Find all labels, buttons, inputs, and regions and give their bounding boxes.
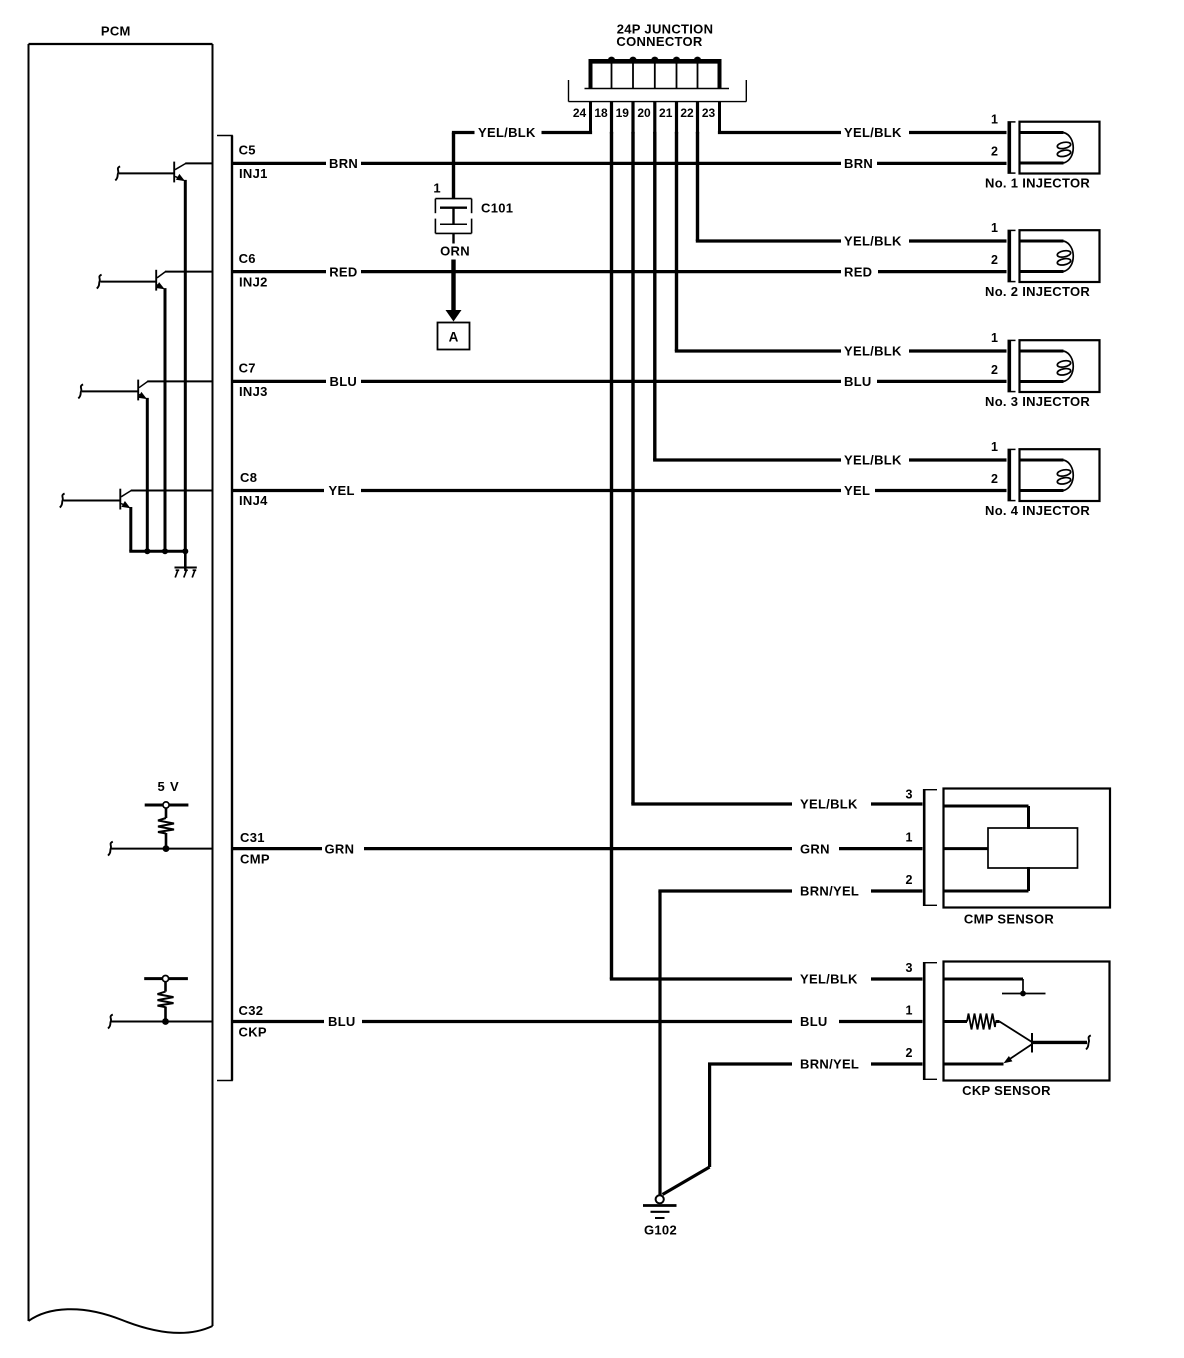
svg-text:3: 3 [906, 961, 913, 975]
svg-text:INJ3: INJ3 [239, 384, 268, 399]
svg-text:RED: RED [844, 264, 872, 279]
svg-text:2: 2 [906, 1046, 913, 1060]
svg-text:C31: C31 [240, 830, 265, 845]
svg-text:No. 4 INJECTOR: No. 4 INJECTOR [985, 503, 1090, 518]
svg-text:1: 1 [991, 221, 998, 235]
svg-text:No. 2 INJECTOR: No. 2 INJECTOR [985, 284, 1090, 299]
svg-text:BLU: BLU [844, 374, 872, 389]
svg-text:YEL/BLK: YEL/BLK [844, 234, 902, 249]
svg-text:C7: C7 [239, 361, 256, 376]
svg-text:BLU: BLU [330, 374, 358, 389]
svg-text:CKP: CKP [239, 1025, 267, 1040]
svg-text:G102: G102 [644, 1223, 677, 1238]
svg-text:BRN: BRN [844, 156, 873, 171]
svg-text:C32: C32 [239, 1003, 264, 1018]
svg-text:20: 20 [637, 106, 651, 120]
svg-text:2: 2 [991, 253, 998, 267]
svg-text:GRN: GRN [325, 841, 355, 856]
svg-text:24: 24 [573, 106, 587, 120]
svg-text:YEL: YEL [329, 483, 355, 498]
svg-text:BLU: BLU [328, 1014, 356, 1029]
svg-text:CONNECTOR: CONNECTOR [616, 34, 703, 49]
svg-text:1: 1 [906, 831, 913, 845]
svg-text:19: 19 [616, 106, 630, 120]
svg-text:YEL/BLK: YEL/BLK [844, 125, 902, 140]
svg-text:22: 22 [680, 106, 694, 120]
svg-text:CKP SENSOR: CKP SENSOR [962, 1083, 1051, 1098]
svg-text:C8: C8 [240, 470, 257, 485]
svg-text:1: 1 [906, 1004, 913, 1018]
svg-text:1: 1 [991, 331, 998, 345]
svg-text:1: 1 [433, 181, 440, 196]
svg-text:2: 2 [991, 145, 998, 159]
svg-text:BRN/YEL: BRN/YEL [800, 884, 859, 899]
svg-text:YEL: YEL [844, 483, 870, 498]
svg-text:CMP SENSOR: CMP SENSOR [964, 912, 1054, 927]
svg-text:INJ4: INJ4 [239, 493, 268, 508]
svg-text:INJ2: INJ2 [239, 274, 268, 289]
svg-text:21: 21 [659, 106, 673, 120]
svg-text:YEL/BLK: YEL/BLK [800, 797, 858, 812]
svg-text:C5: C5 [239, 143, 256, 158]
svg-text:No. 1 INJECTOR: No. 1 INJECTOR [985, 176, 1090, 191]
svg-text:GRN: GRN [800, 841, 830, 856]
svg-text:BRN/YEL: BRN/YEL [800, 1057, 859, 1072]
svg-text:YEL/BLK: YEL/BLK [844, 453, 902, 468]
svg-text:CMP: CMP [240, 852, 270, 867]
svg-text:2: 2 [906, 873, 913, 887]
svg-text:INJ1: INJ1 [239, 166, 268, 181]
svg-text:RED: RED [329, 264, 357, 279]
svg-text:A: A [449, 330, 459, 345]
svg-text:YEL/BLK: YEL/BLK [800, 972, 858, 987]
svg-text:2: 2 [991, 472, 998, 486]
svg-text:3: 3 [906, 788, 913, 802]
svg-text:C6: C6 [239, 251, 256, 266]
svg-text:BLU: BLU [800, 1014, 828, 1029]
svg-text:1: 1 [991, 113, 998, 127]
svg-text:2: 2 [991, 363, 998, 377]
svg-text:18: 18 [594, 106, 608, 120]
svg-text:ORN: ORN [440, 244, 470, 259]
svg-text:BRN: BRN [329, 156, 358, 171]
svg-text:23: 23 [702, 106, 716, 120]
svg-text:PCM: PCM [101, 24, 131, 39]
svg-text:YEL/BLK: YEL/BLK [844, 344, 902, 359]
svg-text:5 V: 5 V [158, 779, 180, 794]
svg-text:1: 1 [991, 440, 998, 454]
svg-text:C101: C101 [481, 200, 513, 215]
svg-text:YEL/BLK: YEL/BLK [478, 125, 536, 140]
svg-text:No. 3 INJECTOR: No. 3 INJECTOR [985, 394, 1090, 409]
